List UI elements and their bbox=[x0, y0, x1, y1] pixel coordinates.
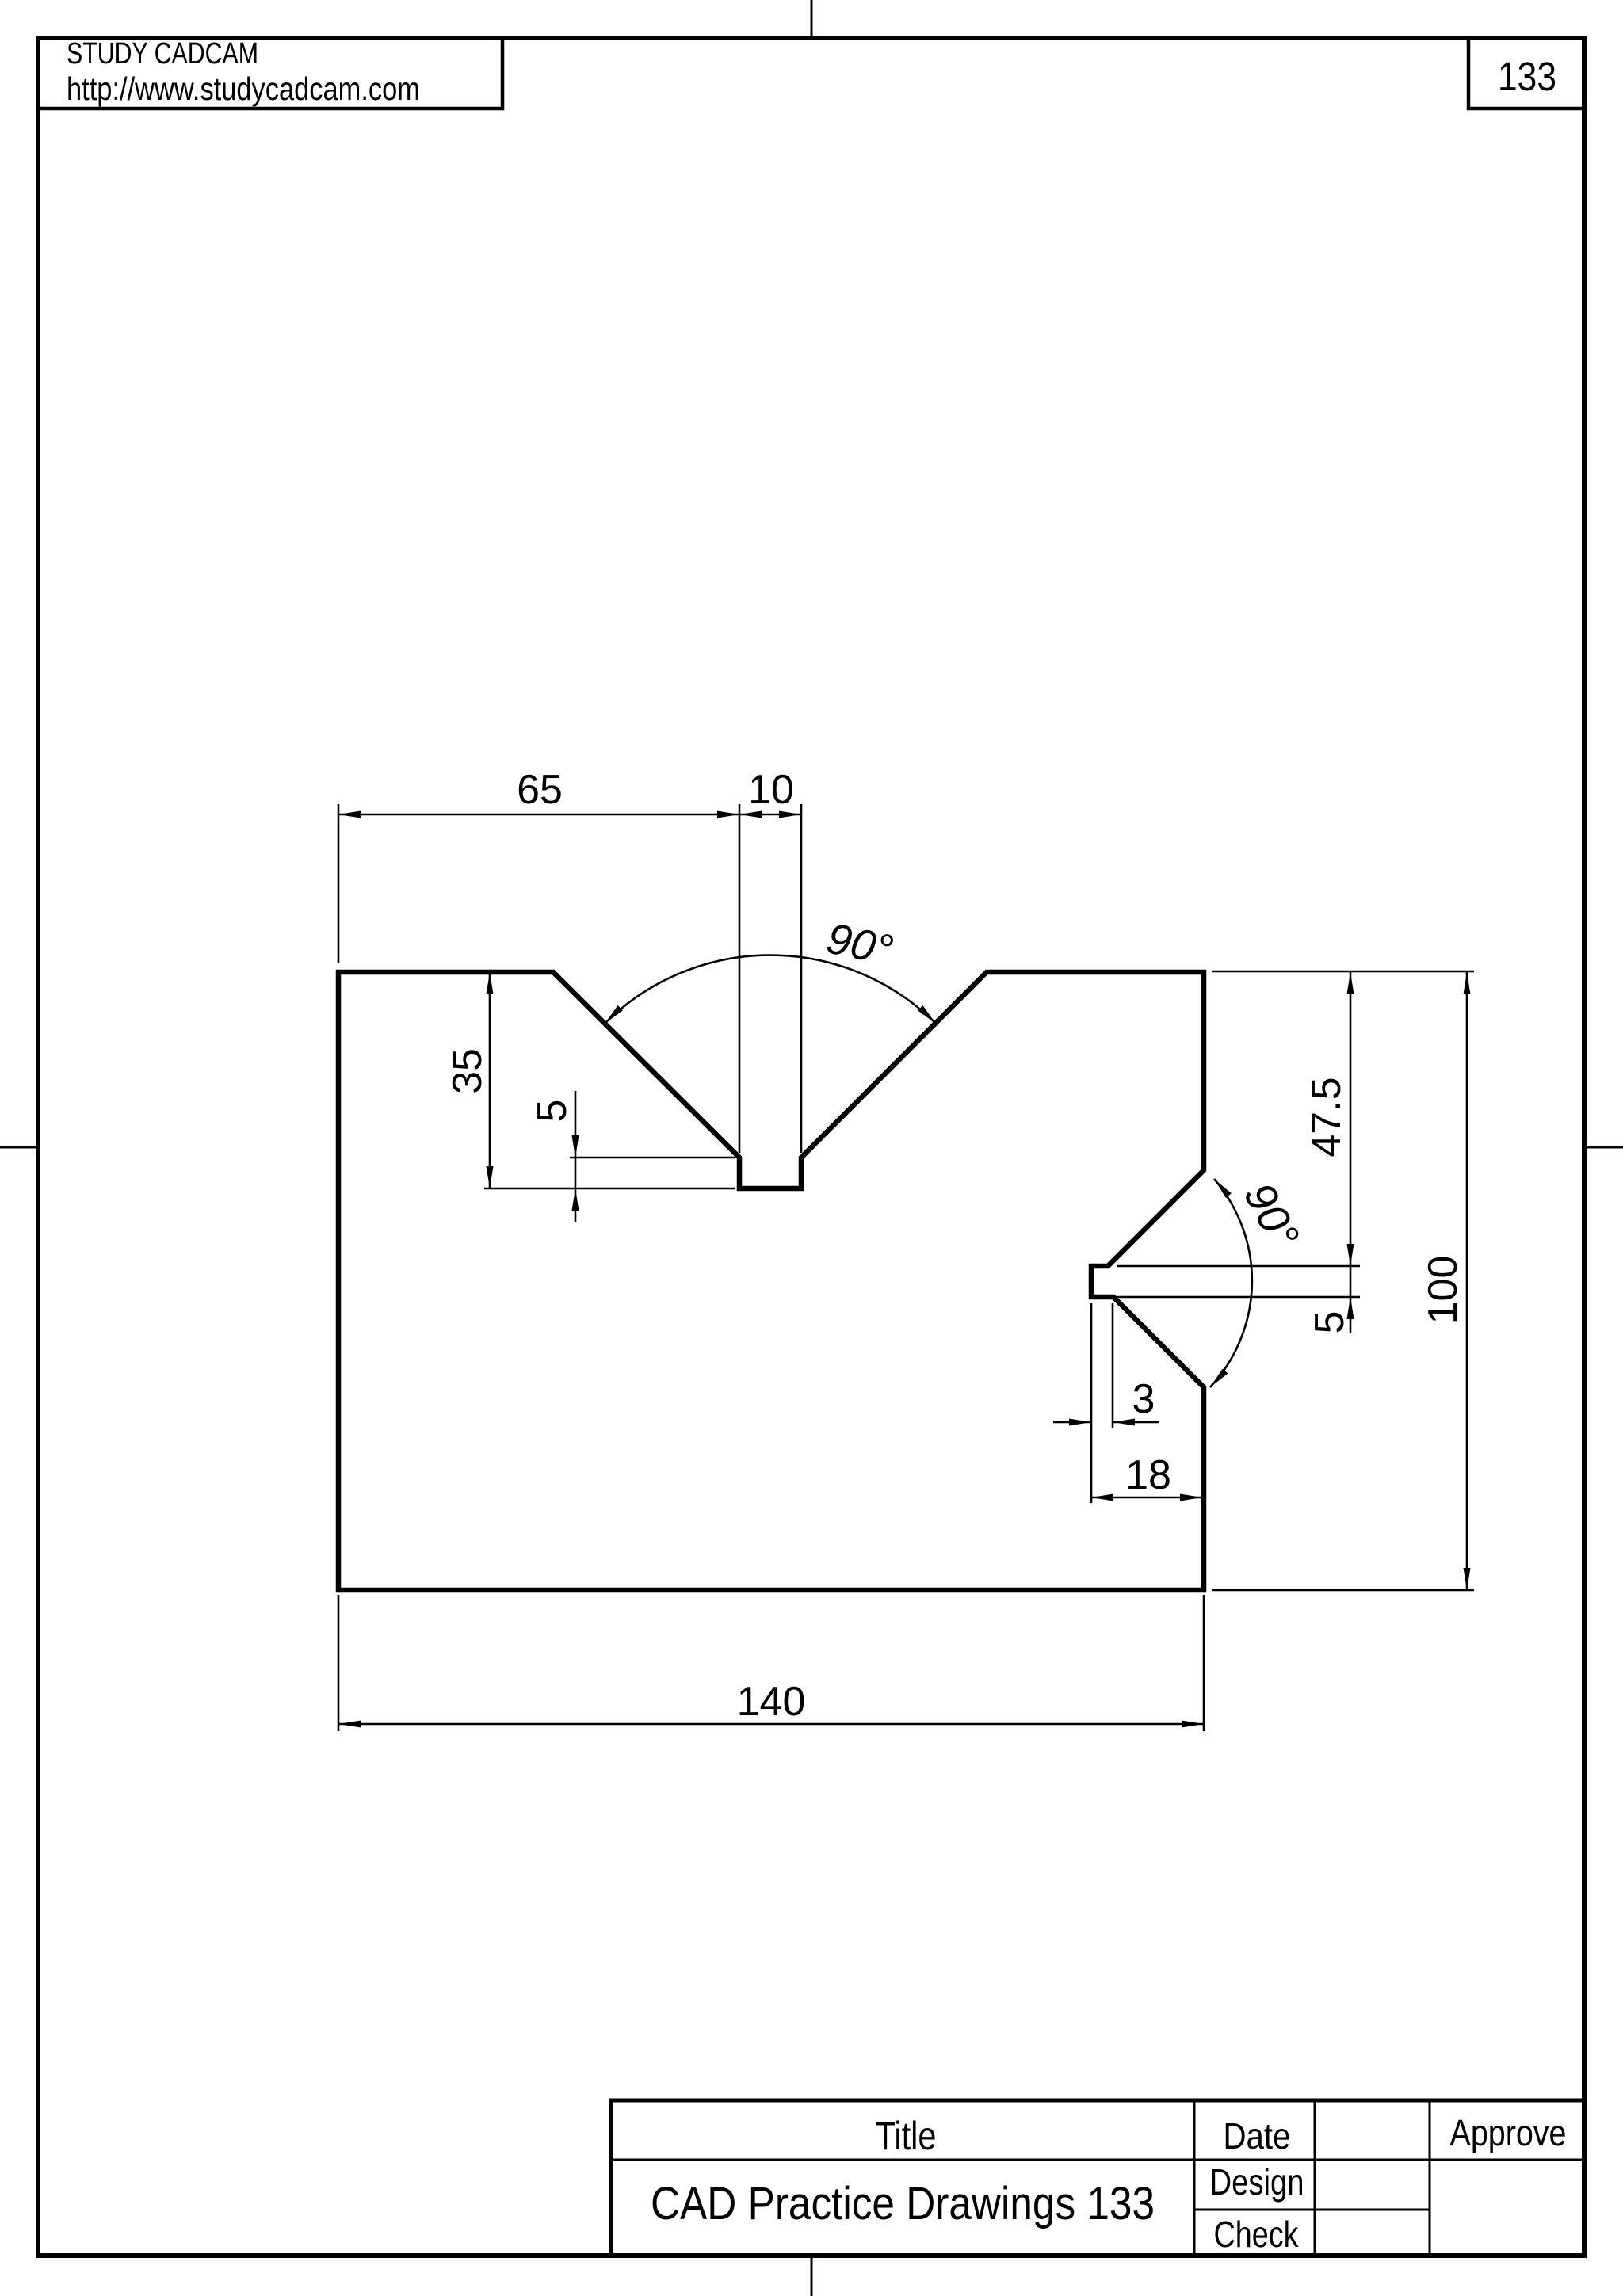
arrow 100 top bbox=[1464, 972, 1471, 994]
svg-text:47.5: 47.5 bbox=[1304, 1077, 1350, 1157]
svg-text:CAD Practice Drawings 133: CAD Practice Drawings 133 bbox=[651, 2178, 1155, 2229]
right center registration tick bbox=[1586, 1146, 1623, 1149]
bottom center registration tick bbox=[811, 2257, 813, 2296]
arrow 5 left down bbox=[572, 1135, 579, 1158]
arrow 47.5 bottom bbox=[1347, 1244, 1354, 1266]
extension line y1461 left bbox=[570, 1157, 735, 1159]
title block bbox=[611, 2100, 1584, 2256]
extension line x1011 bbox=[800, 804, 803, 1153]
svg-text:140: 140 bbox=[737, 1679, 806, 1725]
title block column divider 3 bbox=[1429, 2100, 1431, 2256]
svg-text:5: 5 bbox=[529, 1100, 575, 1123]
arrow 100 bottom bbox=[1464, 1568, 1471, 1590]
svg-text:100: 100 bbox=[1420, 1256, 1466, 1325]
extension line x1377 bbox=[1090, 1303, 1093, 1503]
title block design/check divider bbox=[1194, 2209, 1430, 2211]
arrow arc top left bbox=[605, 1005, 623, 1024]
arrow 5 left up bbox=[572, 1188, 579, 1211]
arrow 10 right bbox=[779, 811, 801, 818]
svg-text:Check: Check bbox=[1214, 2214, 1300, 2255]
header logo box bbox=[38, 38, 502, 109]
title block column divider 2 bbox=[1314, 2100, 1316, 2256]
arrow arc right upper bbox=[1214, 1179, 1232, 1198]
svg-text:Title: Title bbox=[876, 2114, 937, 2158]
extension line x1404 bbox=[1112, 1303, 1114, 1428]
svg-text:STUDY CADCAM: STUDY CADCAM bbox=[67, 37, 258, 71]
extension line x427 bottom bbox=[338, 1595, 340, 1731]
dim line 47.5 and 5 right bbox=[1350, 972, 1352, 1333]
svg-text:http://www.studycadcam.com: http://www.studycadcam.com bbox=[67, 71, 420, 107]
arrow 140 right bbox=[1182, 1721, 1204, 1728]
arrow 10 left bbox=[739, 811, 762, 818]
arrow 5 right up bbox=[1347, 1297, 1354, 1319]
dim line 18 bbox=[1091, 1497, 1202, 1499]
dim line 3 left tail bbox=[1053, 1421, 1091, 1424]
title block outer frame bbox=[611, 2100, 1584, 2256]
arrow 47.5 top bbox=[1347, 972, 1354, 994]
extension line x933 bbox=[739, 804, 741, 1153]
angle arc 90 right bbox=[1210, 1179, 1252, 1387]
extension line y1598 right bbox=[1117, 1265, 1360, 1268]
svg-text:Date: Date bbox=[1224, 2115, 1291, 2157]
part outline (V-block profile) bbox=[338, 972, 1204, 1590]
svg-text:18: 18 bbox=[1125, 1452, 1171, 1498]
arrow 18 right bbox=[1180, 1494, 1202, 1501]
dim line 100 bbox=[1466, 972, 1468, 1590]
arrow 3 left bbox=[1069, 1419, 1091, 1426]
arrow 65 right bbox=[717, 811, 739, 818]
arrow arc top right bbox=[918, 1005, 936, 1024]
extension line y1637 right bbox=[1117, 1296, 1360, 1299]
dim line 140 bbox=[338, 1723, 1204, 1726]
arrow arc right lower bbox=[1210, 1368, 1228, 1387]
left center registration tick bbox=[0, 1146, 36, 1149]
arrow 65 left bbox=[338, 811, 361, 818]
svg-text:5: 5 bbox=[1307, 1311, 1353, 1334]
svg-text:35: 35 bbox=[445, 1048, 491, 1094]
arrow 35 bottom bbox=[487, 1166, 494, 1188]
extension line x427 top bbox=[338, 804, 340, 963]
svg-text:65: 65 bbox=[517, 767, 563, 813]
arrow 35 top bbox=[487, 972, 494, 994]
extension line x1519 bottom bbox=[1203, 1595, 1205, 1731]
dim line 10 bbox=[739, 814, 801, 816]
arrow 140 left bbox=[338, 1721, 361, 1728]
title block column divider 1 bbox=[1193, 2100, 1196, 2256]
svg-text:Approve: Approve bbox=[1450, 2112, 1567, 2153]
svg-text:133: 133 bbox=[1498, 54, 1556, 99]
extension line y1500 left bbox=[484, 1188, 735, 1190]
arrow 18 left bbox=[1091, 1494, 1113, 1501]
svg-text:3: 3 bbox=[1132, 1376, 1155, 1422]
dim line 5 left bbox=[575, 1091, 577, 1222]
extension line y2007 right bbox=[1212, 1589, 1474, 1592]
arrow 3 right bbox=[1113, 1419, 1135, 1426]
sheet number box bbox=[1468, 38, 1584, 109]
dim line 3 right tail bbox=[1113, 1421, 1159, 1424]
svg-text:10: 10 bbox=[748, 767, 794, 813]
angle arc 90 top bbox=[605, 955, 936, 1024]
title block row divider bbox=[611, 2159, 1584, 2161]
svg-text:Design: Design bbox=[1210, 2161, 1304, 2203]
top center registration tick bbox=[811, 0, 813, 36]
dim line 65 bbox=[338, 814, 739, 816]
extension line y1226 right bbox=[1212, 971, 1474, 973]
dim line 35 bbox=[489, 972, 491, 1188]
